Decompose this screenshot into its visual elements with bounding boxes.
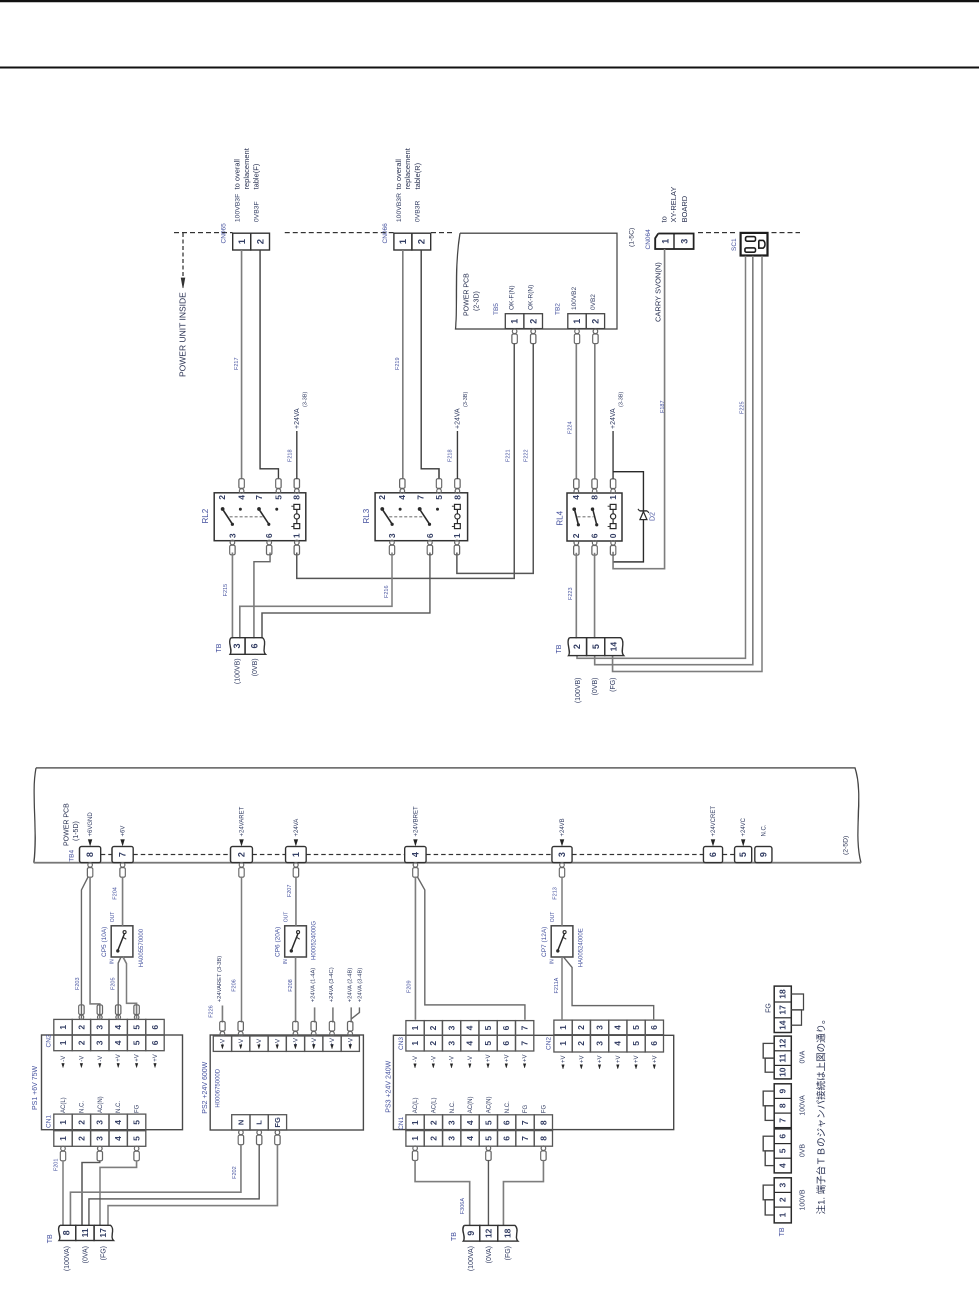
svg-text:7: 7 <box>118 852 128 857</box>
RL2 contact <box>221 507 225 511</box>
page header rule thin <box>0 67 979 69</box>
breaker CP5 (10A) <box>111 926 133 957</box>
connector CN066 <box>394 233 412 250</box>
svg-text:F208: F208 <box>288 979 294 992</box>
svg-text:4: 4 <box>411 852 421 857</box>
svg-text:CN2: CN2 <box>546 1037 553 1050</box>
svg-text:N.C.: N.C. <box>505 1101 511 1113</box>
svg-text:2: 2 <box>217 495 227 500</box>
svg-text:SC1: SC1 <box>731 238 738 251</box>
svg-text:+24VA (2-4B): +24VA (2-4B) <box>347 968 353 1003</box>
svg-text:0VB: 0VB <box>800 1144 807 1158</box>
power supply PS2 <box>210 1035 363 1130</box>
svg-text:F226: F226 <box>208 1005 214 1018</box>
svg-text:8: 8 <box>292 495 302 500</box>
svg-text:(100VB): (100VB) <box>234 658 241 684</box>
TB2 pin casings <box>575 329 580 334</box>
RL2 contact <box>257 507 261 511</box>
svg-text:F225: F225 <box>739 401 745 414</box>
svg-text:HA005570000: HA005570000 <box>139 928 145 967</box>
svg-text:F216: F216 <box>384 585 390 598</box>
svg-text:+24VA (3-4B): +24VA (3-4B) <box>357 968 363 1003</box>
svg-text:8: 8 <box>538 1120 548 1125</box>
TB4 cell 4 <box>405 847 426 863</box>
svg-text:7: 7 <box>254 495 264 500</box>
svg-text:F218: F218 <box>447 449 453 462</box>
svg-text:2: 2 <box>417 239 428 244</box>
svg-text:POWER PCB: POWER PCB <box>463 273 470 316</box>
svg-text:4: 4 <box>465 1025 475 1030</box>
wire F204 TB4-7 to CP5 <box>122 877 124 926</box>
svg-text:5: 5 <box>591 644 601 649</box>
svg-text:F202: F202 <box>232 1166 238 1179</box>
svg-text:-V: -V <box>274 1038 281 1045</box>
svg-text:8: 8 <box>85 852 95 857</box>
svg-text:(3-3B): (3-3B) <box>618 392 624 407</box>
wire +24VA to RL2-8 <box>296 431 298 479</box>
svg-text:-V: -V <box>450 1056 456 1062</box>
board POWER PCB (2-3D) <box>456 233 618 329</box>
svg-text:PS2 +24V 600W: PS2 +24V 600W <box>202 1061 209 1113</box>
svg-text:2: 2 <box>76 1040 86 1045</box>
svg-text:table(R): table(R) <box>413 162 422 189</box>
wire PS2 FG to TB-17 <box>108 1145 277 1227</box>
svg-text:TB: TB <box>556 644 563 653</box>
svg-text:3: 3 <box>679 239 689 244</box>
svg-text:-V: -V <box>413 1056 419 1062</box>
svg-text:AC(L): AC(L) <box>61 1097 67 1113</box>
svg-text:0: 0 <box>608 533 618 538</box>
svg-text:(0VB): (0VB) <box>252 658 259 676</box>
RL3 contact <box>418 507 422 511</box>
svg-text:+V: +V <box>634 1055 640 1063</box>
svg-text:HA00524000E: HA00524000E <box>579 928 585 967</box>
svg-text:(1-5D): (1-5D) <box>73 821 80 841</box>
wire F306A PS3 CN1-1 to TB-9 <box>415 1160 470 1226</box>
wire F207 TB4-1 to CP6 <box>295 877 297 926</box>
svg-text:3: 3 <box>594 1025 604 1030</box>
svg-text:2: 2 <box>76 1136 86 1141</box>
svg-text:2: 2 <box>76 1120 86 1125</box>
svg-text:3: 3 <box>232 643 242 648</box>
svg-text:-V: -V <box>79 1056 85 1062</box>
svg-text:7: 7 <box>520 1025 530 1030</box>
svg-text:-V: -V <box>431 1056 437 1062</box>
svg-text:-V: -V <box>98 1056 104 1062</box>
svg-text:TB2: TB2 <box>555 303 562 315</box>
svg-text:2: 2 <box>591 319 601 324</box>
svg-text:to overall: to overall <box>394 159 403 190</box>
svg-text:F187: F187 <box>660 400 666 413</box>
svg-text:6: 6 <box>590 533 600 538</box>
svg-text:4: 4 <box>113 1136 123 1141</box>
wire +24VA to RL3-8 <box>456 431 458 479</box>
power supply PS3 <box>393 1035 673 1129</box>
svg-text:3: 3 <box>778 1182 788 1187</box>
svg-text:100VB3F: 100VB3F <box>235 194 242 222</box>
svg-text:N.C.: N.C. <box>761 824 767 836</box>
svg-text:F206: F206 <box>231 979 237 992</box>
svg-text:2: 2 <box>428 1136 438 1141</box>
svg-text:CARRY SVON(N): CARRY SVON(N) <box>653 262 662 322</box>
svg-text:3: 3 <box>446 1041 456 1046</box>
svg-text:7: 7 <box>520 1041 530 1046</box>
svg-text:(2-5D): (2-5D) <box>842 836 849 855</box>
PS2 output pin casings <box>239 1130 244 1135</box>
svg-text:F207: F207 <box>287 885 293 898</box>
wire F208 CP6 to PS2 +V5 <box>295 957 297 1023</box>
svg-text:F213: F213 <box>552 887 558 900</box>
wire F217 CN065-1 to RL2-4 <box>241 250 243 479</box>
PS1 CN1 pin casings <box>61 1146 66 1151</box>
wire F216 RL3-3 to TB-3 <box>240 553 392 639</box>
wire PS1 CN1-3 to TB-11 <box>82 1161 100 1227</box>
svg-text:CN066: CN066 <box>382 223 389 244</box>
svg-text:(3-3B): (3-3B) <box>302 392 308 407</box>
net stub +24VA (2-4B) at PS2 +V8 <box>350 1007 352 1022</box>
svg-text:1: 1 <box>58 1040 68 1045</box>
PS2 terminal +V <box>341 1036 359 1051</box>
svg-text:-V: -V <box>220 1038 227 1045</box>
svg-text:1: 1 <box>558 1041 568 1046</box>
jumper table TB <box>774 986 791 1032</box>
svg-text:11: 11 <box>80 1228 90 1237</box>
terminal TB (bottom left 8/11/17) <box>59 1225 76 1240</box>
svg-text:4: 4 <box>465 1041 475 1046</box>
svg-text:CP5 (10A): CP5 (10A) <box>101 927 108 957</box>
svg-text:3: 3 <box>447 1136 457 1141</box>
svg-text:AC(N): AC(N) <box>468 1097 474 1114</box>
svg-text:3: 3 <box>594 1041 604 1046</box>
svg-text:0VB3F: 0VB3F <box>253 201 260 222</box>
svg-text:XY-RELAY: XY-RELAY <box>669 187 678 223</box>
svg-text:+V: +V <box>504 1054 510 1062</box>
RL4 coil <box>610 504 616 509</box>
svg-text:to: to <box>659 216 668 222</box>
svg-text:12: 12 <box>778 1038 788 1048</box>
RL2 coil <box>294 504 300 509</box>
RL3 coil <box>455 504 461 509</box>
svg-text:4: 4 <box>397 495 407 500</box>
svg-text:BOARD: BOARD <box>680 195 689 222</box>
svg-text:+24VA (1-4A): +24VA (1-4A) <box>311 968 317 1003</box>
wire RL4-6 to TB-5 <box>594 553 596 639</box>
svg-text:100VB3R: 100VB3R <box>396 193 403 222</box>
terminal TB (100VB/0VB left) <box>230 638 245 655</box>
svg-text:4: 4 <box>465 1120 475 1125</box>
svg-text:7: 7 <box>520 1120 530 1125</box>
svg-text:FG: FG <box>523 1105 529 1114</box>
svg-text:1: 1 <box>661 239 671 244</box>
svg-text:14: 14 <box>609 642 619 652</box>
svg-text:H000524000G: H000524000G <box>312 921 318 960</box>
svg-text:0VA: 0VA <box>800 1050 807 1063</box>
svg-text:1: 1 <box>291 852 301 857</box>
svg-text:1: 1 <box>410 1120 420 1125</box>
svg-text:F211A: F211A <box>554 977 560 993</box>
svg-text:+V: +V <box>579 1055 585 1063</box>
connector CN065 <box>233 233 251 250</box>
wire CP5 branch to PS1 CN2-5 <box>123 957 137 1019</box>
svg-text:+V: +V <box>616 1055 622 1063</box>
jumper bracket <box>763 1136 774 1151</box>
svg-text:2: 2 <box>571 533 581 538</box>
svg-text:4: 4 <box>113 1025 123 1030</box>
svg-text:5: 5 <box>273 495 283 500</box>
TB4 cell 5 <box>735 847 752 863</box>
TB4 cell 6 <box>703 847 722 863</box>
svg-text:4: 4 <box>613 1025 623 1030</box>
svg-text:100VB2: 100VB2 <box>571 286 578 310</box>
svg-text:1: 1 <box>452 533 462 538</box>
svg-text:CN1: CN1 <box>46 1115 53 1128</box>
svg-text:F219: F219 <box>395 357 401 370</box>
svg-text:8: 8 <box>62 1230 72 1235</box>
svg-text:+V: +V <box>652 1055 658 1063</box>
RL4 linkage <box>578 516 594 518</box>
net stub +24VA (3-4B) branch at PS2 +V8 <box>351 1007 359 1019</box>
svg-text:2: 2 <box>778 1197 788 1202</box>
svg-text:1: 1 <box>410 1025 420 1030</box>
svg-text:CP7 (12A): CP7 (12A) <box>541 927 548 957</box>
svg-text:4: 4 <box>113 1040 123 1045</box>
svg-text:AC(L): AC(L) <box>413 1098 419 1114</box>
svg-text:4: 4 <box>571 495 581 500</box>
RL4 contact 2 <box>591 507 595 511</box>
jumper bracket <box>763 1185 774 1200</box>
svg-text:6: 6 <box>502 1120 512 1125</box>
svg-text:1: 1 <box>292 533 302 538</box>
TB4 cell 3 <box>552 847 572 863</box>
svg-text:+24VA: +24VA <box>294 819 300 837</box>
PS2 terminal +V <box>323 1036 341 1051</box>
wire PS1 CN1-5 to TB-17 <box>100 1161 137 1227</box>
svg-text:OUT: OUT <box>284 912 290 923</box>
TB4 cell 8 <box>80 847 101 863</box>
wire SC1 to TB-14 <box>613 256 762 672</box>
svg-text:+24VA: +24VA <box>610 408 617 429</box>
svg-text:3: 3 <box>95 1120 105 1125</box>
TB4 cell 7 <box>112 847 133 863</box>
wire F219 CN066-1 to RL3-4 <box>402 250 404 479</box>
svg-text:10: 10 <box>778 1067 788 1077</box>
svg-text:F205: F205 <box>110 977 116 990</box>
svg-text:N.C.: N.C. <box>79 1101 85 1113</box>
net stub +24VA (1-4A) at PS2 +V6 <box>314 1007 316 1022</box>
svg-text:CN2: CN2 <box>46 1034 53 1047</box>
wire F222 TB5-2 to RL3-1 <box>457 344 533 574</box>
svg-text:3: 3 <box>95 1136 105 1141</box>
wire CP7 branch to PS3 CN2-6 <box>564 957 654 1019</box>
svg-text:3: 3 <box>387 533 397 538</box>
wire PS3 CN1-8 to TB-18 <box>503 1160 543 1226</box>
svg-text:F306A: F306A <box>460 1198 466 1215</box>
svg-text:H000675000D: H000675000D <box>215 1068 221 1107</box>
svg-text:2: 2 <box>576 1025 586 1030</box>
wire F225 SC1 to TB-2 <box>577 256 746 658</box>
svg-text:12: 12 <box>484 1228 494 1238</box>
svg-text:6: 6 <box>501 1041 511 1046</box>
svg-text:+24VC: +24VC <box>741 817 747 836</box>
svg-text:5: 5 <box>132 1040 142 1045</box>
svg-text:F222: F222 <box>523 449 529 462</box>
svg-text:IN: IN <box>283 959 289 964</box>
svg-text:14: 14 <box>778 1020 788 1030</box>
svg-text:N.C.: N.C. <box>450 1101 456 1113</box>
svg-text:RL3: RL3 <box>362 508 371 523</box>
svg-text:N.C.: N.C. <box>116 1101 122 1113</box>
svg-text:4: 4 <box>113 1120 123 1125</box>
svg-text:CN065: CN065 <box>221 223 228 244</box>
PS2 terminal -V <box>250 1036 268 1051</box>
svg-text:replacement: replacement <box>403 147 412 189</box>
svg-text:3: 3 <box>227 533 237 538</box>
net stub +24VARET at PS2 -V1 <box>221 1006 223 1023</box>
PS1 CN2 pin casings <box>79 1015 84 1020</box>
svg-text:1: 1 <box>608 495 618 500</box>
PS2 output terminals N L FG <box>232 1115 250 1130</box>
svg-text:TB: TB <box>216 643 223 652</box>
TB5 pin casings <box>512 329 517 334</box>
PS2 terminal +V <box>305 1036 323 1051</box>
svg-text:-V: -V <box>256 1038 263 1045</box>
svg-text:11: 11 <box>778 1053 788 1062</box>
svg-text:CP6 (20A): CP6 (20A) <box>274 927 281 957</box>
svg-text:17: 17 <box>778 1005 788 1015</box>
socket SC1 <box>741 233 768 256</box>
svg-text:2: 2 <box>237 852 247 857</box>
svg-text:CN1: CN1 <box>398 1116 405 1129</box>
diode D2 loop <box>613 472 643 562</box>
svg-text:5: 5 <box>132 1025 142 1030</box>
relay RL2 <box>214 493 306 541</box>
svg-text:2: 2 <box>428 1120 438 1125</box>
svg-text:1: 1 <box>410 1136 420 1141</box>
svg-text:5: 5 <box>483 1025 493 1030</box>
svg-text:-V: -V <box>468 1056 474 1062</box>
RL2 linkage <box>230 516 263 518</box>
svg-text:4: 4 <box>237 495 247 500</box>
svg-text:1: 1 <box>572 319 582 324</box>
wire PS2 L to TB-11 <box>89 1145 259 1227</box>
svg-text:F209: F209 <box>406 980 412 993</box>
svg-text:FG: FG <box>135 1104 141 1113</box>
svg-text:TB: TB <box>779 1227 786 1236</box>
svg-text:2: 2 <box>428 1025 438 1030</box>
svg-text:F203: F203 <box>75 977 81 990</box>
svg-text:-V: -V <box>61 1056 67 1062</box>
svg-text:2: 2 <box>76 1025 86 1030</box>
svg-text:AC(N): AC(N) <box>487 1097 493 1114</box>
TB4 cell 9 <box>755 847 772 863</box>
svg-text:F224: F224 <box>567 421 573 434</box>
svg-text:OUT: OUT <box>550 912 556 923</box>
TB4 dashed bus <box>101 854 112 856</box>
wire TB2-2 to RL4-8 <box>594 344 596 479</box>
svg-text:F215: F215 <box>223 584 229 597</box>
svg-text:2: 2 <box>576 1041 586 1046</box>
svg-text:+24VA: +24VA <box>294 408 301 429</box>
svg-text:4: 4 <box>778 1163 788 1168</box>
wire F206 TB4-2 to PS2 -V2 <box>241 877 243 1023</box>
wire CN066-2 to RL3-5 <box>421 250 439 479</box>
svg-text:F217: F217 <box>234 357 240 370</box>
svg-text:N: N <box>236 1120 245 1125</box>
wire TB4-8 branch to PS1 CN2-2 <box>81 877 88 1019</box>
svg-text:6: 6 <box>649 1041 659 1046</box>
svg-text:(0VA): (0VA) <box>82 1246 89 1263</box>
svg-text:3: 3 <box>447 1120 457 1125</box>
svg-text:CN3: CN3 <box>398 1037 405 1050</box>
svg-text:AC(L): AC(L) <box>432 1098 438 1114</box>
svg-text:+V: +V <box>598 1055 604 1063</box>
connector CN064 <box>655 234 693 250</box>
svg-text:18: 18 <box>502 1228 512 1238</box>
svg-text:+24VA: +24VA <box>454 408 461 429</box>
svg-text:FG: FG <box>542 1105 548 1114</box>
svg-text:OUT: OUT <box>110 912 116 923</box>
svg-text:5: 5 <box>778 1148 788 1153</box>
wire CN065-2 to RL2-5 <box>260 250 278 479</box>
svg-text:F221: F221 <box>505 449 511 462</box>
svg-text:1: 1 <box>558 1025 568 1030</box>
svg-text:TB: TB <box>47 1234 54 1243</box>
svg-text:(2-3D): (2-3D) <box>473 291 480 311</box>
svg-text:5: 5 <box>483 1041 493 1046</box>
svg-text:5: 5 <box>631 1041 641 1046</box>
wire RL3-6 to TB-6 <box>262 553 430 639</box>
svg-text:2: 2 <box>377 495 387 500</box>
diode D2 symbol <box>640 512 647 520</box>
relay RL4 <box>567 493 622 541</box>
svg-text:9: 9 <box>758 852 768 857</box>
svg-text:18: 18 <box>778 989 788 999</box>
svg-text:CN064: CN064 <box>645 229 652 250</box>
svg-text:+24VARET: +24VARET <box>240 806 246 836</box>
svg-text:6: 6 <box>150 1040 160 1045</box>
svg-text:(100VA): (100VA) <box>64 1246 71 1271</box>
svg-text:5: 5 <box>483 1120 493 1125</box>
power-unit-inside arrow <box>182 233 184 278</box>
svg-text:(3-3B): (3-3B) <box>463 392 469 407</box>
svg-text:table(F): table(F) <box>252 163 261 189</box>
svg-text:(FG): (FG) <box>505 1246 512 1260</box>
svg-text:(FG): (FG) <box>610 678 617 692</box>
svg-text:注1. 端子台ＴＢのジャンパ接続は上図の通り。: 注1. 端子台ＴＢのジャンパ接続は上図の通り。 <box>815 1014 827 1214</box>
svg-text:0VB3R: 0VB3R <box>415 200 422 222</box>
svg-text:PS3 +24V 240W: PS3 +24V 240W <box>386 1060 393 1112</box>
svg-text:+24VARET (3-3B): +24VARET (3-3B) <box>217 956 223 1002</box>
svg-text:5: 5 <box>132 1136 142 1141</box>
svg-text:6: 6 <box>250 643 260 648</box>
svg-text:1: 1 <box>410 1041 420 1046</box>
relay RL3 <box>375 493 468 541</box>
wire SC1 to TB-5 <box>595 256 753 665</box>
svg-text:(0VB): (0VB) <box>592 678 599 696</box>
svg-text:6: 6 <box>649 1025 659 1030</box>
wire F221 TB5-1 to RL2-1 <box>297 344 514 579</box>
svg-text:1: 1 <box>398 238 409 244</box>
svg-text:8: 8 <box>778 1103 788 1108</box>
svg-text:+6VGND: +6VGND <box>88 812 94 837</box>
svg-text:-V: -V <box>238 1038 245 1045</box>
svg-text:F223: F223 <box>568 587 574 600</box>
breaker CP6 (20A) <box>285 926 307 957</box>
svg-text:1: 1 <box>237 238 248 244</box>
svg-text:100VA: 100VA <box>800 1095 807 1116</box>
svg-text:+V: +V <box>561 1055 567 1063</box>
svg-text:3: 3 <box>95 1025 105 1030</box>
